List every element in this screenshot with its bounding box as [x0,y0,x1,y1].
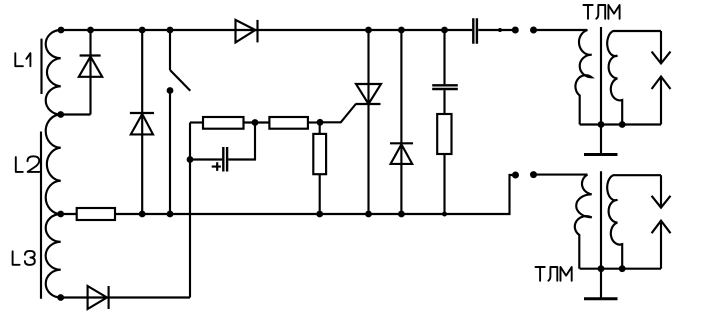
resistor R3 vertical [313,134,326,174]
arrester F1 lower lead [660,77,662,125]
thyristor VS1 cathode bar [356,103,381,105]
resistor R5 [77,208,115,220]
wire top rail left [61,29,472,31]
node S1 bottom [167,211,174,218]
diode VD3 series in top rail [236,20,256,43]
resistor R2 [269,117,308,129]
T2 core [600,171,602,299]
node VD2 top [139,27,146,34]
transformer T2 lower [534,171,671,299]
terminal X2 right [530,171,537,178]
capacitor C1 plates [222,147,224,172]
node L1 top [58,27,65,34]
node L3 bottom [57,294,64,301]
node R4 bottom [442,212,447,217]
node VD4 top [398,27,405,34]
ground T1 [584,153,618,156]
arrester F2 lower lead [660,221,662,269]
switch S1 blade [170,70,190,91]
wire R4 bottom [443,154,445,214]
capacitor C1 plus sign [212,162,221,171]
inductor L3 [46,214,61,298]
arrester F2 up arrow [652,221,671,234]
resistor R4 vertical [437,114,451,154]
wire terminal to T1 primary [534,29,588,31]
node R3 bottom [316,211,323,218]
node switch lower contact [167,87,174,94]
diode VD2 branch [141,30,143,214]
node T1 secondary bottom [619,121,626,128]
wire terminal to T2 primary [534,174,588,176]
arrester F2 upper lead [660,175,662,207]
switch S1 upper lead [169,30,171,70]
wire L1 bottom to VD1 [61,113,91,115]
T1 secondary winding [607,31,661,125]
thyristor VS1 triangle [356,84,381,104]
wire R1 right to node [244,121,270,123]
node R1 R2 junction [252,119,259,126]
diode VD1 parallel to L1 [89,30,91,115]
thyristor VS1 anode lead [367,30,369,214]
label L3 [13,251,35,265]
T1 primary winding [575,30,591,125]
T2 secondary winding [607,175,661,269]
T1 bottom wire [580,123,661,125]
label T2 TLM [536,267,572,281]
wire R3 top [319,122,321,134]
switch S1 lower lead [169,91,171,215]
node L1 bottom [57,111,64,118]
core bar L1 [40,39,42,94]
wire vertical from R1 left down to bottom diode [189,123,191,298]
T2 bottom wire [580,268,661,270]
core bar L2 L3 [40,132,42,299]
arrester F1 up arrow [652,77,671,90]
transformer T1 upper [534,27,671,155]
resistor R1 [203,117,244,129]
inductor L2 [46,115,61,215]
terminal X2 left [512,172,519,179]
node S1 top [167,27,174,34]
node L2 bottom [57,211,64,218]
label L2 [16,156,40,172]
capacitor C3 series in top rail [473,18,477,43]
T2 primary winding [575,175,592,269]
wire R1 left [190,121,203,123]
node T2 core ground [598,265,605,272]
node small on output wire [498,28,502,32]
node gate junction [317,119,324,126]
capacitor C2 top lead [443,30,445,84]
thyristor VS1 gate [320,104,356,122]
capacitor C2 plates [432,85,458,89]
ground T2 [584,297,618,300]
label L1 [15,53,30,66]
node VS1 top [365,27,372,34]
node T1 core ground [598,121,605,128]
terminal X1 left [512,27,519,34]
node C2 top [441,27,448,34]
diode VD5 bottom [61,296,190,298]
wire R3 bottom [319,174,321,214]
bottom rail left [61,213,77,215]
arrester F2 down arrow [652,196,671,208]
node VD2 bottom [139,211,146,218]
label T1 TLM [583,5,619,19]
bottom rail [115,175,516,214]
node VS1 bottom [365,211,372,218]
diode VD4 branch [400,30,402,214]
wire C2 to R4 [443,90,445,114]
T1 core [600,27,602,155]
arrester F1 down arrow [652,52,671,64]
arrester F1 upper lead [660,31,662,63]
node T2 secondary bottom [619,265,626,272]
node VD4 bottom [398,211,405,218]
wire R2 right to node [308,121,320,123]
inductor L1 [46,30,61,115]
node VD1 top [87,27,94,34]
wire C3 to terminal [478,29,515,31]
capacitor C1 right wire [228,123,255,160]
terminal X1 right [530,27,537,34]
node C1 left [187,156,194,163]
capacitor C1 left wire [190,158,222,160]
